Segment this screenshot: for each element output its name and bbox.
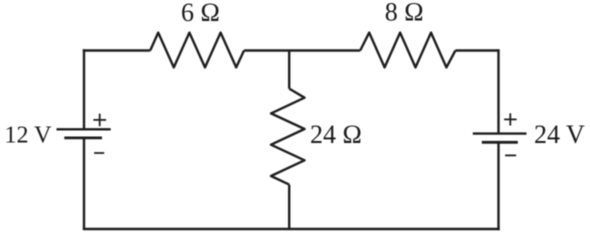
wire top-left segment — [83, 49, 150, 51]
wire right side upper (to battery V2) — [497, 49, 499, 133]
wire left side upper (to battery V1) — [83, 49, 85, 129]
plus sign of battery V2 — [504, 113, 516, 125]
wire bottom segment — [83, 228, 500, 230]
minus sign of battery V2 — [505, 154, 516, 156]
resistor R3 24 ohm vertical zigzag — [271, 89, 305, 185]
battery V1 short plate (-) — [64, 136, 102, 139]
battery V2 long plate (+) — [473, 132, 527, 134]
svg-text:24 V: 24 V — [534, 120, 585, 149]
wire middle branch lower (R3 to bottom node) — [288, 185, 290, 229]
battery V2 short plate (-) — [482, 141, 518, 144]
minus sign of battery V1 — [94, 152, 104, 154]
resistor R2 8 ohm zigzag — [360, 33, 455, 68]
battery V1 long plate (+) — [57, 128, 111, 130]
svg-text:24 Ω: 24 Ω — [310, 120, 362, 149]
svg-text:12 V: 12 V — [5, 123, 53, 149]
wire top-right segment — [455, 49, 498, 51]
wire left side lower (from battery V1 to bottom) — [83, 138, 85, 229]
svg-text:6 Ω: 6 Ω — [181, 0, 220, 27]
svg-text:8 Ω: 8 Ω — [385, 0, 424, 27]
resistor R1 6 ohm zigzag — [150, 33, 244, 68]
wire middle branch upper (node A to R3) — [288, 51, 290, 89]
wire top-middle segment — [244, 49, 360, 51]
wire right side lower (from battery V2 to bottom) — [497, 142, 499, 230]
plus sign of battery V1 — [93, 114, 106, 127]
